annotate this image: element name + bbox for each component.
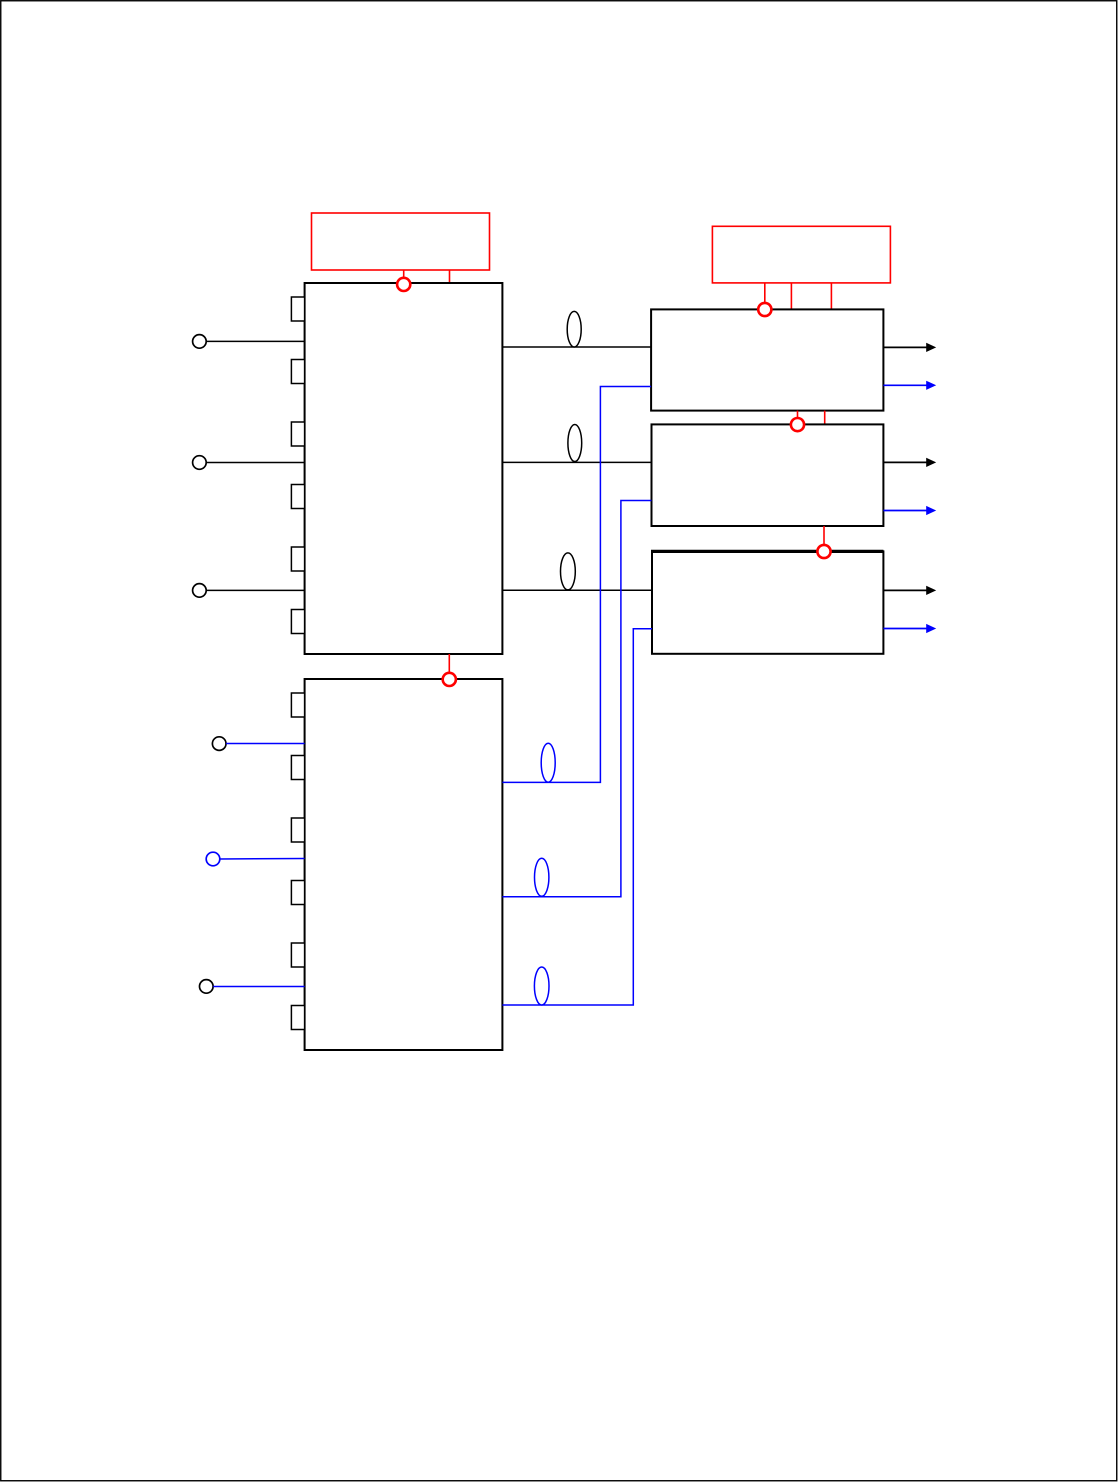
- output arrow U5 black: [883, 586, 936, 595]
- input terminal T4: [212, 737, 226, 751]
- pin U2-5: [291, 943, 304, 967]
- cable symbol E1: [567, 311, 581, 347]
- red stub B2 to U3 top (right): [830, 283, 832, 310]
- red stub from U4 bottom to node P5: [823, 526, 825, 545]
- pin U1-4: [291, 485, 304, 509]
- pin U2-6: [291, 1006, 304, 1030]
- red node P3 on block U3 top: [758, 303, 771, 316]
- cable symbol E2: [568, 425, 582, 462]
- cable symbol E5 (blue): [535, 858, 549, 896]
- pin U2-3: [291, 818, 304, 842]
- wire T6 to U2 (blue): [213, 986, 304, 988]
- wire T4 to U2 (blue): [226, 743, 305, 745]
- blue wire U2 out2 to U4: [502, 501, 651, 897]
- input terminal T5 (blue): [206, 852, 220, 866]
- cable symbol E3: [561, 553, 576, 590]
- wire U1 to U3 (black): [502, 346, 651, 348]
- wire T3 to U1: [206, 589, 304, 591]
- pin U1-1: [291, 297, 304, 321]
- pin U1-6: [291, 610, 304, 634]
- input terminal T6: [200, 980, 214, 994]
- output arrow U3 black: [883, 343, 936, 352]
- wire U1 to U4 (black): [502, 461, 651, 463]
- red node P4 on block U4 top: [791, 418, 804, 431]
- red callout box B2 (top right): [712, 226, 890, 283]
- cable symbol E6 (blue): [534, 967, 549, 1005]
- output arrow U5 blue: [883, 624, 936, 633]
- block U2 (lower left): [305, 679, 503, 1050]
- pin U1-5: [291, 547, 304, 571]
- block U5 (right bottom): [652, 551, 883, 653]
- block U5 thick top edge: [651, 550, 883, 553]
- pin U1-3: [291, 422, 304, 446]
- pin U2-4: [291, 881, 304, 905]
- pin U1-2: [291, 360, 304, 384]
- red stub from U1 bottom to node P2: [448, 654, 450, 673]
- red stub from B1 to node P1: [403, 270, 405, 278]
- pin U2-2: [291, 756, 304, 780]
- blue wire U2 out1 to U3: [502, 387, 651, 783]
- red node P5 on block U5 top: [817, 545, 830, 558]
- wire U1 to U5 (black): [502, 589, 652, 591]
- red stub from U3 bottom to node P4: [797, 411, 799, 418]
- wire T2 to U1: [206, 462, 304, 464]
- output arrow U4 black: [883, 458, 936, 467]
- red stub from B2 to node P3: [764, 283, 766, 303]
- output arrow U3 blue: [883, 381, 936, 390]
- red link U3 bottom to U4 top: [824, 411, 826, 425]
- block U3 (right top): [651, 309, 883, 410]
- red node P2 on block U2 top: [443, 673, 456, 686]
- red stub from B1 to block U1 top: [449, 270, 451, 283]
- output arrow U4 blue: [883, 506, 936, 515]
- pin U2-1: [291, 693, 304, 717]
- cable symbol E4 (blue): [541, 743, 555, 782]
- red stub B2 to U3 top (middle): [790, 283, 792, 310]
- input terminal T3: [193, 584, 207, 598]
- input terminal T2: [193, 456, 207, 470]
- input terminal T1: [193, 335, 207, 349]
- block U4 (right middle): [652, 424, 884, 526]
- wire T1 to U1: [206, 340, 304, 342]
- red node P1 on block U1 top: [397, 278, 410, 291]
- block U1 (upper left): [305, 283, 503, 654]
- blue wire U2 out3 to U5: [502, 629, 652, 1005]
- red callout box B1 (top left): [312, 213, 490, 270]
- wire T5 to U2 (blue): [220, 858, 305, 861]
